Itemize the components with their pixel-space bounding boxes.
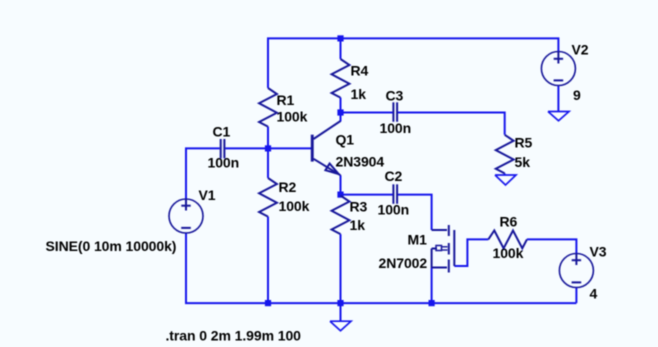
junction node base/C1/R1/R2: [265, 145, 271, 151]
resistor R3: [332, 196, 350, 235]
svg-text:100n: 100n: [378, 202, 410, 218]
svg-text:C3: C3: [386, 88, 404, 104]
ground V2: [548, 112, 569, 121]
wire R2 bottom to rail: [267, 217, 269, 304]
capacitor C2: [393, 184, 397, 204]
wire R4 top lead: [340, 38, 342, 59]
resistor R2: [259, 178, 277, 217]
svg-text:100k: 100k: [279, 198, 310, 214]
wire collector node to C3: [341, 112, 393, 114]
wire bottom rail: [186, 233, 576, 303]
svg-text:1k: 1k: [350, 217, 366, 233]
voltage source V3: [559, 254, 593, 288]
wire Q1 emitter down: [340, 175, 342, 194]
wire emitter node to C2: [341, 194, 393, 196]
transistor M1: [432, 225, 455, 273]
svg-text:100k: 100k: [493, 245, 524, 261]
wire R5 bottom lead to ground: [504, 173, 506, 175]
svg-text:R2: R2: [279, 179, 297, 195]
voltage source V2: [541, 52, 575, 86]
wire R1 bottom to R2 top: [267, 127, 269, 178]
junction node emitter: [337, 192, 343, 198]
svg-text:2N3904: 2N3904: [336, 154, 385, 170]
svg-text:R3: R3: [350, 199, 368, 215]
capacitor C1: [221, 139, 225, 158]
svg-text:C1: C1: [213, 124, 231, 140]
svg-text:100n: 100n: [208, 155, 240, 171]
capacitor C3: [393, 102, 397, 122]
wire M1 source to R6: [454, 239, 488, 266]
svg-text:.tran 0 2m 1.99m 100: .tran 0 2m 1.99m 100: [166, 328, 302, 344]
transistor Q1: [311, 121, 341, 175]
wire V1 top to C1: [186, 148, 220, 199]
svg-text:2N7002: 2N7002: [379, 255, 428, 271]
ground R5: [495, 175, 516, 185]
svg-text:9: 9: [573, 87, 581, 103]
wire C1 to Q1 base: [225, 147, 311, 149]
wire V2 bottom to ground: [557, 86, 559, 111]
svg-text:100k: 100k: [277, 109, 308, 125]
svg-text:V1: V1: [199, 187, 216, 203]
wire R6 to V3 top: [527, 239, 577, 253]
wire top rail: [268, 38, 558, 88]
wire C3 to R5: [398, 113, 505, 135]
wire C2 to M1 drain: [398, 195, 432, 230]
junction node top rail R4 tap: [337, 35, 343, 41]
wire V3 bottom to rail: [575, 288, 577, 303]
junction node collector: [337, 109, 343, 115]
wire R4 bottom to collector node: [340, 98, 342, 122]
junction node rail R2: [265, 300, 271, 306]
wire R3 bottom through rail to ground: [340, 234, 342, 321]
ground R3: [330, 321, 351, 331]
svg-text:5k: 5k: [515, 154, 531, 170]
svg-text:1k: 1k: [351, 86, 367, 102]
resistor R1: [259, 88, 277, 127]
svg-text:100n: 100n: [380, 120, 412, 136]
svg-text:R5: R5: [515, 135, 533, 151]
svg-text:R4: R4: [351, 63, 369, 79]
svg-text:R1: R1: [277, 92, 295, 108]
svg-text:SINE(0 10m 10000k): SINE(0 10m 10000k): [46, 238, 177, 254]
resistor R6: [488, 231, 527, 249]
svg-text:V2: V2: [572, 42, 589, 58]
svg-text:Q1: Q1: [336, 132, 355, 148]
svg-text:R6: R6: [500, 214, 518, 230]
resistor R5: [496, 135, 514, 174]
svg-text:V3: V3: [590, 244, 607, 260]
junction node rail M1: [429, 300, 435, 306]
resistor R4: [332, 59, 350, 98]
svg-text:4: 4: [590, 286, 598, 302]
voltage source V1: [169, 199, 203, 233]
wire M1 gate/source down to rail: [431, 268, 433, 303]
junction node rail R3: [337, 300, 343, 306]
svg-text:M1: M1: [408, 232, 428, 248]
svg-text:C2: C2: [385, 168, 403, 184]
